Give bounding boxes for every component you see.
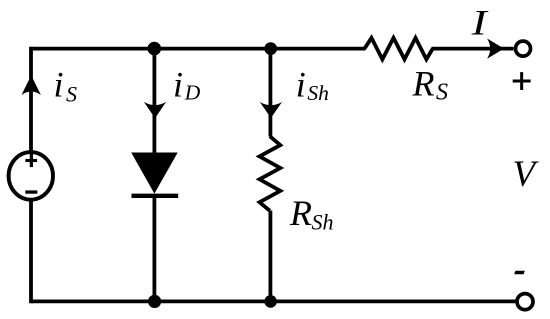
svg-text:D: D bbox=[184, 81, 201, 105]
diode D1 cathode bar bbox=[132, 194, 179, 198]
wire diode branch lower bbox=[152, 196, 156, 301]
wire shunt branch lower bbox=[268, 211, 272, 302]
resistor R_S zigzag bbox=[365, 38, 433, 59]
label R_Sh bbox=[289, 193, 334, 234]
svg-text:I: I bbox=[471, 3, 490, 43]
resistor R_Sh zigzag bbox=[260, 136, 281, 211]
arrow right (output current) bbox=[487, 39, 504, 59]
junction dot bottom shunt node bbox=[264, 295, 277, 308]
diode D1 triangle bbox=[131, 153, 178, 194]
label plus terminal bbox=[513, 72, 531, 90]
svg-text:S: S bbox=[66, 81, 77, 106]
arrow down (shunt current) bbox=[260, 102, 282, 118]
svg-text:Sh: Sh bbox=[312, 210, 334, 235]
junction dot top diode node bbox=[148, 42, 162, 56]
wire shunt branch upper bbox=[268, 49, 272, 137]
label i_S bbox=[54, 65, 78, 107]
label i_Sh bbox=[296, 65, 329, 106]
current source plus sign bbox=[25, 154, 37, 167]
label i_D bbox=[173, 64, 201, 104]
svg-text:Sh: Sh bbox=[307, 81, 329, 105]
wire top-left horizontal segment bbox=[31, 47, 366, 51]
junction dot bottom diode node bbox=[148, 295, 161, 308]
wire left branch lower bbox=[29, 201, 33, 304]
label R_S bbox=[412, 64, 449, 106]
svg-text:i: i bbox=[296, 65, 306, 105]
terminal circle bottom right bbox=[517, 294, 533, 310]
wire bottom horizontal bbox=[31, 299, 516, 303]
arrow down (diode current) bbox=[144, 102, 166, 118]
wire left branch upper bbox=[29, 47, 33, 152]
svg-text:S: S bbox=[436, 80, 448, 106]
label minus terminal bbox=[514, 271, 525, 275]
svg-text:R: R bbox=[412, 64, 435, 104]
current source U1 circle bbox=[9, 152, 53, 200]
svg-text:i: i bbox=[54, 65, 64, 105]
svg-text:R: R bbox=[289, 193, 312, 233]
terminal circle top right bbox=[516, 41, 531, 56]
wire diode branch upper bbox=[152, 49, 156, 154]
current source minus sign bbox=[25, 190, 37, 193]
svg-text:i: i bbox=[173, 64, 183, 104]
arrow up (source current) bbox=[22, 75, 41, 95]
junction dot top shunt node bbox=[264, 42, 277, 55]
wire top-right horizontal segment bbox=[432, 47, 514, 51]
